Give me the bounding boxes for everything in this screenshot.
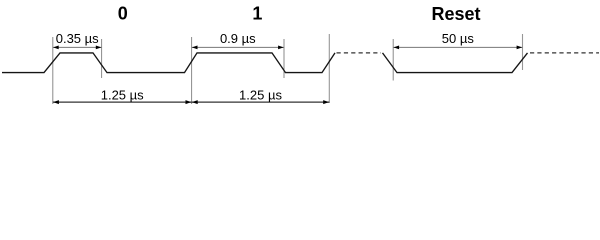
extension line V2 (mid fall 1) <box>101 39 103 78</box>
dimension 1.25 us (period bit 0) <box>53 100 192 104</box>
dimension 1.25 us (period bit 1) <box>192 100 330 104</box>
svg-text:Reset: Reset <box>431 4 480 24</box>
wire dashed high after reset <box>530 52 599 54</box>
svg-text:1.25 µs: 1.25 µs <box>239 87 282 102</box>
svg-text:50 µs: 50 µs <box>442 31 475 46</box>
dimension 0.35 us (high time bit 0) <box>53 46 102 50</box>
extension line V7 (reset fall) <box>392 39 394 81</box>
extension line V34 (mid rise 2) <box>191 37 193 104</box>
dimension 50 us (reset low time) <box>393 46 522 50</box>
cut line V8 (gray, end of reset) <box>522 34 524 70</box>
cut line V6 (gray, end of bit-1 period) <box>328 34 330 103</box>
svg-text:0.9 µs: 0.9 µs <box>220 31 256 46</box>
svg-text:0.35 µs: 0.35 µs <box>56 31 99 46</box>
dimension 0.9 us (high time bit 1) <box>192 46 284 50</box>
wire dashed high between bit 1 and reset <box>337 52 382 54</box>
waveform reset low period <box>383 53 528 73</box>
svg-text:1.25 µs: 1.25 µs <box>101 87 144 102</box>
extension line V5 (fall 2) <box>283 39 285 78</box>
svg-text:0: 0 <box>118 3 128 23</box>
extension line V1 (mid rise 1) <box>52 37 54 104</box>
waveform bit 0 and bit 1 <box>2 53 335 73</box>
svg-text:1: 1 <box>252 3 262 23</box>
